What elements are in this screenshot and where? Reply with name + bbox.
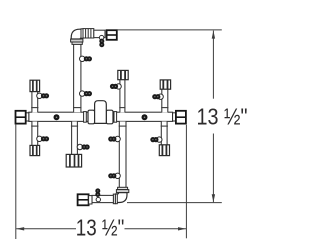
bottom elbow <box>116 193 127 203</box>
riser petcock upper <box>80 56 85 61</box>
bottom dimension line left segment <box>16 228 76 230</box>
center union body <box>95 101 107 124</box>
riser hub band <box>71 39 83 42</box>
drain dot left <box>54 114 60 120</box>
bottom dimension line right segment <box>125 228 187 230</box>
top valve ball <box>99 35 103 39</box>
left end neck <box>26 113 29 121</box>
bottom-right extension line <box>127 202 222 204</box>
descender petcock upper <box>115 136 120 141</box>
svg-text:13 ½": 13 ½" <box>197 103 248 129</box>
branch D2 pipe <box>71 121 78 154</box>
branch D4 end fitting <box>159 145 169 156</box>
center union collar left <box>88 110 95 124</box>
right end fitting <box>176 111 186 124</box>
vertical dimension line lower segment <box>212 134 214 203</box>
vertical dimension arrow up <box>212 31 215 39</box>
descender petcock lower <box>115 173 120 178</box>
vertical dimension line upper segment <box>212 31 214 99</box>
bottom valve knob <box>95 188 100 197</box>
bottom elbow outlet rings <box>115 194 117 204</box>
bottom union neck <box>89 196 92 204</box>
riser pipe <box>73 44 82 112</box>
vertical dimension arrow down <box>212 194 215 202</box>
branch U4 petcock <box>158 94 163 99</box>
drain dot right <box>142 114 148 120</box>
top elbow <box>71 29 83 39</box>
branch D4 petcock <box>157 137 162 142</box>
center union collar right <box>106 110 113 124</box>
bottom dimension arrow right <box>178 227 186 230</box>
bottom outlet pipe <box>92 195 113 202</box>
riser petcock lower <box>80 91 85 96</box>
branch U3 petcock <box>116 84 121 89</box>
branch U4 pipe <box>161 89 168 112</box>
branch D2 end fitting <box>66 154 81 167</box>
top elbow outlet ring <box>81 29 83 38</box>
branch U3 end fitting <box>118 70 128 79</box>
riser collar <box>72 42 82 44</box>
dimension extension line right <box>185 125 187 239</box>
branch U3 pipe <box>119 80 125 113</box>
top valve knob <box>99 39 104 48</box>
bottom valve ball <box>96 197 100 201</box>
center union ring right <box>114 112 117 123</box>
branch U1 end fitting <box>30 80 40 91</box>
top union fitting <box>107 30 117 40</box>
descender collar <box>118 187 128 189</box>
dimension extension line left <box>15 124 17 239</box>
branch D1 pipe <box>31 121 38 145</box>
right end neck <box>173 113 176 121</box>
branch U1 pipe <box>31 92 38 113</box>
center union ring left <box>84 112 87 123</box>
left end fitting <box>16 111 26 124</box>
top extension line <box>117 29 222 31</box>
descender pipe <box>119 121 127 187</box>
branch D1 end fitting <box>30 145 40 155</box>
branch D2 petcock <box>77 144 82 149</box>
top coupling <box>83 29 94 38</box>
branch U4 end fitting <box>160 80 170 89</box>
branch D1 petcock <box>37 136 42 141</box>
top outlet pipe <box>94 30 105 37</box>
branch U1 petcock <box>37 93 42 98</box>
svg-text:13 ½": 13 ½" <box>76 214 125 240</box>
bottom union fitting <box>78 194 89 205</box>
descender hub band <box>116 190 128 193</box>
main horizontal pipe <box>29 112 173 121</box>
branch D4 pipe <box>161 121 168 145</box>
bottom dimension arrow left <box>16 227 24 230</box>
